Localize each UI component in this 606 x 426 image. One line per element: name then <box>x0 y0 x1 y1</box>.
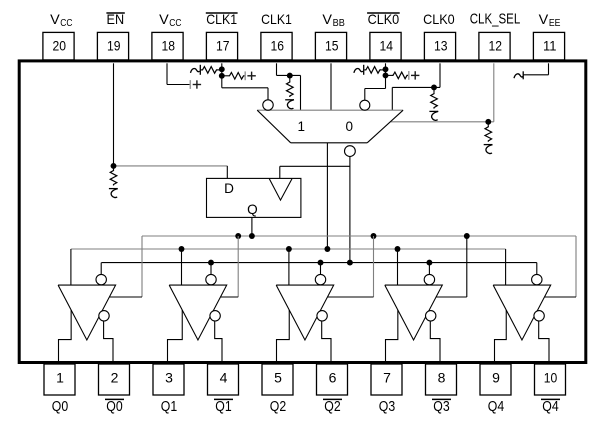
pin label Q3 (inverted) <box>432 398 451 415</box>
buffer 5 output bubble (inverted) <box>534 311 544 321</box>
pin 7 box <box>371 364 402 395</box>
wire clock bus to buffer 4 true input <box>397 249 399 285</box>
wire buffer 5 inverted output to pin Q4 bar <box>539 321 549 363</box>
wire buffer 1 inverted output to pin Q0 bar <box>104 321 113 363</box>
flip-flop clock triangle <box>269 179 292 200</box>
wire clock bus to buffer 5 true input <box>505 249 507 285</box>
node pin16 junction <box>287 73 293 79</box>
svg-text:16: 16 <box>271 37 285 53</box>
pin 5 box <box>262 364 293 395</box>
node pin12 junction <box>485 119 491 125</box>
wire buffer 3 true output to pin Q2 <box>277 310 290 363</box>
wire enable bus to buffer 4 side input <box>436 236 467 297</box>
pin label Q3 <box>379 398 395 415</box>
pin 13 box <box>424 32 455 60</box>
svg-text:11: 11 <box>543 37 557 53</box>
wire buffer 3 inverted output to pin Q2 bar <box>322 321 331 363</box>
svg-text:1: 1 <box>298 119 306 134</box>
buffer U4 output driver 2 triangle <box>169 285 227 340</box>
svg-text:Q: Q <box>247 202 258 217</box>
svg-text:CC: CC <box>60 18 72 29</box>
wire buffer 2 true output to pin Q1 <box>168 310 183 363</box>
svg-text:15: 15 <box>325 37 339 53</box>
buffer U6 output driver 4 triangle <box>385 285 443 340</box>
net CLKC complement clock bus (L3) <box>101 262 536 264</box>
pin 11 box <box>533 32 564 60</box>
svg-text:V: V <box>322 12 332 27</box>
svg-text:EN: EN <box>107 12 125 27</box>
wire mux true output to clock bus <box>326 143 328 249</box>
pin 6 box <box>317 364 348 395</box>
svg-text:9: 9 <box>492 370 500 386</box>
resistor R2 with break (pin 17 pullup) <box>191 65 222 75</box>
svg-text:Q0: Q0 <box>52 398 68 415</box>
svg-text:20: 20 <box>53 37 67 53</box>
resistor CLK0 pulldown <box>429 87 438 120</box>
resistor EN pulldown <box>109 166 118 198</box>
net CLKT true clock bus (L2) <box>71 248 506 250</box>
svg-text:18: 18 <box>162 37 176 53</box>
flip-flop label Q <box>247 202 258 217</box>
node EN junction <box>111 163 117 169</box>
buffer 1 input bubble <box>96 274 106 284</box>
svg-text:8: 8 <box>438 370 446 386</box>
wire clock bus to buffer 3 true input <box>288 249 290 285</box>
pin label Q1 (inverted) <box>214 398 233 415</box>
svg-text:CLK0: CLK0 <box>423 12 455 27</box>
buffer 1 output bubble (inverted) <box>99 311 109 321</box>
resistor CLK_SEL pulldown <box>484 122 493 154</box>
svg-text:12: 12 <box>489 37 503 53</box>
wire enable bus to buffer 3 side input <box>327 236 373 297</box>
pin 11 label VEE <box>539 12 561 29</box>
buffer U5 output driver 3 triangle <box>276 285 334 340</box>
pin 12 box <box>479 32 510 60</box>
svg-text:Q2: Q2 <box>324 398 340 415</box>
battery B2 (+ symbol) <box>245 71 256 80</box>
pin 16 box <box>261 32 292 60</box>
pin 3 box <box>153 364 184 395</box>
wire VEE pin 11 internal <box>523 63 548 75</box>
wire mux inverted output to flip-flop clock <box>280 157 350 263</box>
svg-text:Q1: Q1 <box>161 398 177 415</box>
svg-text:CLK1: CLK1 <box>206 12 237 27</box>
wire buffer 4 inverted output to pin Q3 bar <box>430 321 440 363</box>
buffer 3 input bubble <box>315 274 325 284</box>
buffer 3 output bubble (inverted) <box>317 311 327 321</box>
wire EN pin 19 to D input of latch <box>114 63 228 178</box>
wire CLK0(inv) pin 14 to mux input 0 bubble <box>365 63 386 100</box>
wire CLK0 pin 13 to mux input 0 <box>392 63 440 110</box>
pin label Q4 (inverted) <box>541 398 560 415</box>
svg-text:0: 0 <box>346 119 354 134</box>
wire clock bus to buffer 2 true input <box>181 249 183 285</box>
resistor R3 to battery (pin 17 termination) <box>222 73 245 80</box>
resistor R6 to battery (pin 14 termination) <box>386 72 408 79</box>
svg-text:Q3: Q3 <box>379 398 395 415</box>
wire complement bus to buffer 3 inverting input <box>320 263 322 274</box>
svg-text:Q3: Q3 <box>433 398 449 415</box>
svg-text:Q2: Q2 <box>270 398 286 415</box>
break symbol VEE distribution <box>514 71 523 79</box>
pin label Q0 <box>52 398 68 415</box>
battery B1 (VBB reference, + symbol) <box>190 80 201 89</box>
svg-text:BB: BB <box>333 18 346 29</box>
mux label 0 <box>346 119 354 134</box>
svg-text:6: 6 <box>329 370 337 386</box>
pin 19 label EN (active low) <box>106 12 124 27</box>
battery B3 (+ symbol) <box>409 71 420 80</box>
svg-text:Q1: Q1 <box>215 398 231 415</box>
buffer 5 input bubble <box>532 274 542 284</box>
flip-flop label D <box>224 181 234 196</box>
wire VBB pin 15 to mux <box>330 63 332 110</box>
pin 17 box <box>206 32 237 60</box>
pin 9 box <box>480 364 511 395</box>
pin 12 label CLK_SEL <box>470 12 521 28</box>
pin 18 label VCC <box>159 12 181 29</box>
wire buffer 5 true output to pin Q4 <box>495 310 507 363</box>
node pin14 junction 1 <box>383 66 389 72</box>
svg-text:5: 5 <box>274 370 282 386</box>
pin 15 label VBB <box>322 12 345 29</box>
svg-text:10: 10 <box>544 370 558 386</box>
buffer 4 input bubble <box>424 274 434 284</box>
mux input 0 bubble <box>360 100 370 110</box>
node pin14 junction 2 <box>383 72 389 78</box>
pin 20 label VCC <box>50 12 72 29</box>
pin 15 box <box>315 32 346 60</box>
svg-text:19: 19 <box>107 37 121 53</box>
svg-text:CC: CC <box>169 18 181 29</box>
wire buffer 4 true output to pin Q3 <box>386 310 398 363</box>
node CLKC dots <box>208 260 432 266</box>
IC body outline <box>19 61 586 363</box>
net ENQ enable bus (L1) <box>142 235 576 237</box>
wire complement bus to buffer 2 inverting input <box>210 263 212 274</box>
wire buffer 2 inverted output to pin Q1 bar <box>215 321 222 363</box>
wire complement bus to buffer 1 inverting input <box>100 263 102 274</box>
wire enable bus to buffer 5 side input <box>544 236 576 297</box>
svg-text:1: 1 <box>56 370 64 386</box>
svg-text:2: 2 <box>111 370 119 386</box>
pin 13 label CLK0 <box>423 12 455 27</box>
svg-text:17: 17 <box>216 37 230 53</box>
svg-text:Q4: Q4 <box>542 398 558 415</box>
svg-text:Q0: Q0 <box>106 398 122 415</box>
mux input 1 bubble <box>263 100 273 110</box>
svg-text:14: 14 <box>380 37 394 53</box>
resistor CLK1 pulldown <box>285 75 294 108</box>
wire buffer 1 true output to pin Q0 <box>59 310 72 363</box>
svg-text:CLK0: CLK0 <box>368 12 400 27</box>
wire enable bus to buffer 2 side input <box>220 236 238 297</box>
pin label Q1 <box>161 398 177 415</box>
svg-text:4: 4 <box>220 370 228 386</box>
pin 10 box <box>535 364 566 395</box>
mux output bubble <box>345 146 356 157</box>
node pin17 junction 2 <box>219 73 225 79</box>
resistor R5 with break (pin 14 pullup) <box>354 65 386 75</box>
svg-text:V: V <box>539 12 549 27</box>
pin 2 box <box>99 364 130 395</box>
svg-text:7: 7 <box>383 370 391 386</box>
buffer 2 input bubble <box>206 274 216 284</box>
wire complement bus to buffer 5 inverting input <box>536 263 538 274</box>
pin label Q0 (inverted) <box>105 398 124 415</box>
pin 14 label CLK0 (active low) <box>367 12 400 27</box>
buffer U7 output driver 5 triangle <box>493 285 551 340</box>
pin 19 box <box>97 32 128 60</box>
node CLKT dots <box>179 246 401 252</box>
pin 17 label CLK1 (active low) <box>206 12 238 27</box>
wire CLK1(inv) pin 17 to mux input 1 bubble <box>222 63 268 100</box>
pin 18 box <box>152 32 183 60</box>
pin 8 box <box>426 364 457 395</box>
buffer 2 output bubble (inverted) <box>210 311 220 321</box>
wire enable bus to buffer 1 side input <box>109 236 142 297</box>
wire flip-flop Q to enable bus <box>251 217 253 236</box>
mux label 1 <box>298 119 306 134</box>
wire CLK1 pin 16 to mux input 1 <box>277 63 301 110</box>
svg-text:13: 13 <box>434 37 448 53</box>
pin label Q2 <box>270 398 286 415</box>
wire clock bus to buffer 1 true input <box>70 249 72 285</box>
mux U1 body (clock select) <box>257 110 403 143</box>
svg-text:V: V <box>159 12 169 27</box>
node ENQ dots <box>235 233 469 239</box>
node pin13 junction <box>431 84 437 90</box>
pin 4 box <box>208 364 239 395</box>
pin 20 box <box>43 32 74 60</box>
svg-text:V: V <box>50 12 60 27</box>
svg-text:D: D <box>224 181 234 196</box>
pin 16 label CLK1 <box>261 12 292 27</box>
pin label Q2 (inverted) <box>323 398 342 415</box>
wire CLK_SEL pin 12 to mux select <box>391 63 494 122</box>
svg-text:Q4: Q4 <box>488 398 504 415</box>
svg-text:EE: EE <box>549 18 561 29</box>
buffer 4 output bubble (inverted) <box>426 311 436 321</box>
wire VCC pin 18 stub <box>167 63 190 84</box>
node pin17 junction 1 <box>219 66 225 72</box>
svg-text:3: 3 <box>165 370 173 386</box>
flip-flop U2 box <box>207 178 301 217</box>
svg-text:CLK_SEL: CLK_SEL <box>470 12 521 28</box>
buffer U3 output driver 1 triangle <box>58 285 116 340</box>
pin 1 box <box>44 364 75 395</box>
wire complement bus to buffer 4 inverting input <box>428 263 430 274</box>
svg-text:CLK1: CLK1 <box>261 12 292 27</box>
pin label Q4 <box>488 398 504 415</box>
pin 14 box <box>370 32 401 60</box>
